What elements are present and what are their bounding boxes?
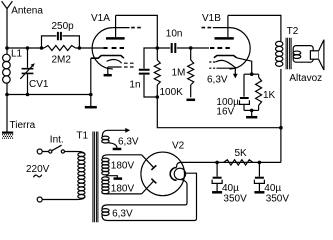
capacitor 10n [157,43,190,53]
label 6,3V heater V1B [207,75,228,86]
label CV1 [29,79,49,90]
node CV1 bottom [26,93,30,97]
label ~ AC [33,175,41,178]
svg-text:220V: 220V [26,164,50,175]
svg-text:2M2: 2M2 [52,55,72,66]
label 16V [216,106,234,117]
label 180V lower [111,184,135,195]
svg-text:1M: 1M [172,67,186,78]
V1B heater [209,60,238,78]
wire cathode network top [244,73,259,75]
V1A heater [107,60,134,75]
node 2M2 right [78,46,82,50]
label V1A [91,13,110,24]
svg-text:L1: L1 [11,48,23,59]
svg-text:180V: 180V [111,160,135,171]
node CV1 top junction [26,46,30,50]
capacitor 100u 16V [240,74,250,110]
label V1B [202,13,221,24]
T1 center tap ground [106,176,122,179]
V1B plate [215,15,234,38]
label 10n [166,29,183,40]
220V bottom terminal [37,197,77,202]
switch Int [37,145,77,154]
label Altavoz [289,73,322,84]
wire 10n to V1B grid [191,47,209,49]
label T1 [76,131,88,142]
label 6,3V bottom [112,209,133,220]
V2 heater [174,168,185,179]
svg-text:Int.: Int. [50,134,64,145]
T1 secondary 6,3V top [102,130,127,148]
wire cathode network bottom [244,109,259,111]
svg-text:1n: 1n [129,79,140,90]
ground rail [85,95,97,108]
label 1M [172,67,186,78]
svg-text:6,3V: 6,3V [207,75,228,86]
label 350V #1 [223,193,247,204]
node V1B cathode top [250,72,254,76]
label Antena [11,5,43,16]
speaker Altavoz [310,40,324,70]
T1 core [93,132,98,223]
variable capacitor CV1 [20,48,35,95]
transformer T1 primary [78,152,86,200]
V1B grid [210,47,230,49]
ground V1A heater [104,74,112,77]
V2 anode 1 [142,155,157,170]
resistor 1K [256,74,262,110]
capacitor 250p [42,32,80,48]
label 1K [263,90,276,101]
capacitor 1n [139,48,158,97]
label Tierra [10,120,36,131]
capacitor 40u 350V #1 [212,162,222,192]
resistor 1M [188,48,194,97]
resistor 2M2 [42,46,80,51]
wire to V1A grid [79,47,103,49]
node antenna/L1 junction [5,46,9,50]
label 6,3V top [118,136,139,147]
label 250p [52,21,75,32]
V2 cathode [170,168,176,181]
wire V1A plate to 10n junction [116,15,158,48]
wire B+ rail [157,97,281,128]
node 10n right / 1M top [189,46,193,50]
svg-text:16V: 16V [216,106,234,117]
ground earth Tierra [2,133,13,139]
node filter output [258,161,262,165]
svg-text:V2: V2 [172,141,185,152]
node L1 bottom [5,93,9,97]
svg-text:Tierra: Tierra [10,120,36,131]
svg-text:250p: 250p [52,21,75,32]
label 2M2 [52,55,72,66]
rectifier tube V2 envelope [141,152,185,196]
label 220V [26,164,50,175]
V1B cathode [214,56,252,75]
svg-text:100K: 100K [160,87,184,98]
wire V2 cathode to filter [177,162,281,167]
svg-text:350V: 350V [223,193,247,204]
svg-text:V1B: V1B [202,13,221,24]
T1 secondary 180V lower [102,177,142,194]
node cathode network bottom [250,109,254,113]
label 1n [129,79,140,90]
node B+ junction [279,126,283,130]
wire antenna to 2M2 (grid rail) [7,47,42,49]
ground cathode network [246,110,257,117]
V1A plate [106,15,125,38]
svg-text:T1: T1 [76,131,88,142]
node 2M2 left [40,46,44,50]
V1A grid [103,47,124,49]
wire tank bottom rail [7,94,91,96]
tube V1A envelope [92,28,141,69]
svg-text:6,3V: 6,3V [112,209,133,220]
svg-text:40µ: 40µ [264,183,281,194]
label V2 [172,141,185,152]
svg-text:Altavoz: Altavoz [289,73,322,84]
inductor L1 [3,48,11,95]
label 100u [216,97,239,108]
svg-text:V1A: V1A [91,13,110,24]
label T2 [287,26,299,37]
transformer T2 primary [276,41,283,66]
svg-text:180V: 180V [111,184,135,195]
antenna [2,1,13,48]
triode V1B envelope [202,28,251,69]
T1 secondary 180V upper [102,155,142,175]
label 40u #2 [264,183,281,194]
label 5K [235,148,248,159]
svg-text:10n: 10n [166,29,183,40]
label 100K [160,87,184,98]
resistor 100K [154,48,160,97]
label Int. [50,134,64,145]
T1 secondary 6,3V bottom [102,173,197,220]
svg-text:T2: T2 [287,26,299,37]
svg-text:350V: 350V [266,193,290,204]
node cathode rail junction [89,93,93,97]
capacitor 40u 350V #2 [254,162,264,192]
svg-text:5K: 5K [235,148,248,159]
wire to earth [6,95,8,134]
label L1 [11,48,23,59]
node filter input [215,161,219,165]
svg-text:40µ: 40µ [222,183,239,194]
label 180V upper [111,160,135,171]
node V1A plate / 10n left [156,46,160,50]
T2 secondary [293,46,313,63]
resistor 5K [224,160,253,165]
svg-text:6,3V: 6,3V [118,136,139,147]
svg-text:Antena: Antena [11,5,43,16]
ground 6,3V top winding [113,148,122,151]
V2 anode 2 [142,179,157,194]
wire V1B plate to T2 primary [228,15,281,41]
label 350V #2 [266,193,290,204]
svg-text:1K: 1K [263,90,276,101]
node 100K bottom [156,95,160,99]
V1A cathode [91,56,124,95]
label 40u #1 [222,183,239,194]
ground 1M [187,99,196,102]
wire T2 primary bottom down [280,69,282,162]
svg-text:CV1: CV1 [29,79,49,90]
T2 core [286,38,291,70]
